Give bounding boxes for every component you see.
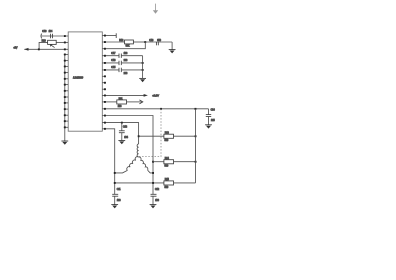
motor winding left leg coil <box>127 157 139 171</box>
svg-text:560: 560 <box>165 166 169 168</box>
wire node X to C16 <box>145 41 172 43</box>
capacitor C16 <box>149 40 161 45</box>
svg-text:C12: C12 <box>155 189 160 191</box>
node tick terminal p1 <box>115 33 117 38</box>
resistor R15 <box>164 179 174 189</box>
svg-text:C14: C14 <box>211 109 216 111</box>
node junction X <box>144 41 146 43</box>
svg-text:103: 103 <box>155 200 159 202</box>
node +5V arrow <box>13 48 28 51</box>
node junction R13 bus <box>195 135 197 137</box>
svg-text:C17: C17 <box>111 53 116 55</box>
wire right leg to phase2 <box>148 170 153 173</box>
node pin dot p10 <box>104 95 106 97</box>
wire jog from VR to +5V rail <box>39 42 48 49</box>
node junction C14 bus <box>195 108 197 110</box>
node open arrow p11 <box>139 100 142 104</box>
svg-text:103: 103 <box>118 106 122 108</box>
node pin dot p2 <box>104 41 106 43</box>
node pin dot L3 <box>64 48 66 50</box>
node top reference arrow <box>153 4 158 14</box>
ground C13 <box>118 141 125 145</box>
node junction right leg <box>152 172 154 174</box>
node junction phase2 / R14 row <box>152 161 154 163</box>
wire left leg to phase3 <box>115 170 128 173</box>
wire R13 row left <box>139 135 164 137</box>
node pin dot p5 <box>104 62 106 64</box>
svg-text:105: 105 <box>211 120 215 122</box>
node junction phase2 / R15 row <box>152 182 154 184</box>
ground C11 <box>111 205 118 209</box>
svg-text:223: 223 <box>124 60 128 62</box>
wire right pin row p11 <box>102 101 117 103</box>
node junction phase1 / R13 row <box>138 135 140 137</box>
node junction left leg <box>114 172 116 174</box>
node junction R14 bus <box>195 161 197 163</box>
capacitor C17 row <box>102 53 142 58</box>
node pin dot p15 <box>104 128 106 130</box>
resistor R13 <box>164 132 174 142</box>
capacitor C10 <box>41 31 53 39</box>
wire right pin row p10 <box>102 94 146 96</box>
svg-text:103: 103 <box>124 53 128 55</box>
svg-text:C11: C11 <box>117 189 122 191</box>
node left bus pin dots <box>64 54 66 129</box>
svg-text:C10: C10 <box>42 31 47 33</box>
node junction dot on +5V rail <box>38 48 40 50</box>
wire right pin row p12 (Vcc rail) <box>102 108 208 110</box>
wire right pin row p1 <box>102 35 116 37</box>
node pin dot p9 <box>102 88 106 90</box>
node pin dot p14 <box>104 122 106 124</box>
node pin dot p6 <box>104 69 106 71</box>
svg-text:104: 104 <box>124 137 128 139</box>
wire right pin row p2 <box>102 41 124 43</box>
ground left bus <box>61 141 68 145</box>
motor winding phase1 coil <box>137 144 139 157</box>
svg-text:C18: C18 <box>111 60 116 62</box>
svg-text:104: 104 <box>49 31 53 33</box>
wire left pin stubs <box>64 54 68 127</box>
wire R14 row left <box>153 161 164 163</box>
ground capacitor bank <box>139 78 146 82</box>
node pin dot p8 <box>102 82 106 84</box>
svg-text:50K: 50K <box>126 46 130 48</box>
wire C16 down leg <box>171 42 173 50</box>
wire R13 row right <box>174 135 196 137</box>
wire right pin row p13 (phase 2) <box>102 116 153 195</box>
node pin dot p12 <box>104 108 106 110</box>
motor winding right leg coil <box>139 157 148 170</box>
wire capacitor bank bus <box>142 56 144 79</box>
svg-text:+3.9V: +3.9V <box>152 94 159 98</box>
node pin dot p7 <box>102 75 106 77</box>
capacitor C14 <box>206 109 216 125</box>
wire left pin row L1 <box>41 35 68 37</box>
node junction dot bus row5 <box>142 62 144 64</box>
ground C12 <box>150 205 157 209</box>
op-amp U1 IC LB11880 body <box>68 32 102 131</box>
wire right bus <box>195 109 197 183</box>
node +3.9V arrow <box>144 94 160 98</box>
svg-text:LB11880: LB11880 <box>73 76 84 80</box>
node junction dot bus row6 <box>142 69 144 71</box>
resistor R11 <box>117 98 127 108</box>
ground C14 <box>205 125 212 129</box>
resistor R14 <box>164 158 174 168</box>
wire right pin row p15 (phase 3) <box>102 129 114 194</box>
node pin dot p11 <box>104 101 106 103</box>
ground C16 <box>169 50 176 54</box>
node pin dot L1 <box>64 35 66 37</box>
wire R12 to node X <box>133 41 145 43</box>
svg-text:103: 103 <box>117 200 121 202</box>
node junction dashed tap <box>160 108 162 110</box>
svg-text:223: 223 <box>124 73 128 75</box>
wire left pin row L3 (+5V rail) <box>24 48 68 50</box>
wire left pin row L2 <box>56 41 68 43</box>
wire R15 row right <box>174 182 196 184</box>
capacitor C13 <box>119 123 129 141</box>
wire left ground bus <box>64 54 66 141</box>
wire dashed common tap to motor center <box>139 109 161 157</box>
capacitor C15 row <box>102 67 142 75</box>
svg-text:560: 560 <box>165 140 169 142</box>
node pin dot L2 <box>64 42 66 44</box>
node pin dot p3 <box>104 48 106 50</box>
svg-text:C15: C15 <box>111 67 116 69</box>
wire right pin row p3 up to node X <box>102 42 145 49</box>
resistor R12 <box>119 40 133 48</box>
node pin dot p13 <box>104 115 106 117</box>
node junction C13 <box>121 122 123 124</box>
resistor VR1 trimmer <box>42 40 57 47</box>
wire right pin row p14 (phase 1) <box>102 123 138 144</box>
capacitor C11 <box>112 189 121 204</box>
node pin dot p4 <box>104 55 106 57</box>
capacitor C18 row <box>102 60 142 65</box>
wire R14 row right <box>174 161 196 163</box>
wire R15 row left <box>115 182 164 184</box>
node junction phase3 / R15 row <box>114 182 116 184</box>
wire R11 to arrow <box>127 101 142 103</box>
svg-text:+5V: +5V <box>13 48 17 50</box>
svg-text:C13: C13 <box>123 127 128 129</box>
node pin dot p1 <box>104 35 106 37</box>
capacitor C12 <box>151 189 160 204</box>
svg-text:560: 560 <box>165 187 169 189</box>
